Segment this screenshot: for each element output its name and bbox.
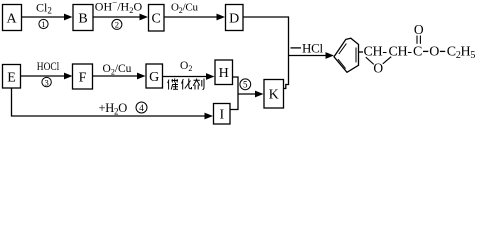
wire C to D <box>164 14 225 21</box>
epoxide bond right <box>383 57 391 64</box>
epoxide bond left <box>366 57 374 64</box>
svg-text:CH-: CH- <box>364 44 388 59</box>
box I <box>214 104 231 125</box>
box B <box>73 5 93 31</box>
formula dash3 <box>423 50 428 52</box>
svg-text:OH−/H2O: OH−/H2O <box>95 0 143 15</box>
svg-text:F: F <box>79 71 87 86</box>
wire H to merge <box>230 77 238 110</box>
label circled 1 <box>39 19 48 29</box>
wire E down to I <box>12 88 214 119</box>
wire D to junction <box>243 17 289 89</box>
box E <box>3 65 21 89</box>
wire E to F <box>21 73 73 80</box>
wire A to B <box>22 14 73 21</box>
svg-text:K: K <box>269 88 279 103</box>
svg-text:1: 1 <box>41 19 45 29</box>
svg-text:O2/Cu: O2/Cu <box>171 2 199 15</box>
wire B to C <box>93 14 148 21</box>
svg-text:O: O <box>414 22 424 37</box>
label circled 5 <box>240 79 251 90</box>
svg-text:I: I <box>219 108 224 123</box>
svg-text:H: H <box>219 66 229 81</box>
svg-text:+H2O: +H2O <box>99 101 128 117</box>
svg-text:4: 4 <box>139 104 144 114</box>
svg-text:A: A <box>6 12 17 27</box>
label cuihuaji (catalyst) <box>168 79 204 90</box>
svg-text:D: D <box>229 12 239 27</box>
svg-text:HOCl: HOCl <box>37 59 60 73</box>
label circled 3 <box>42 77 51 87</box>
svg-text:3: 3 <box>44 77 48 87</box>
carbonyl double bond <box>417 36 420 44</box>
benzene ring <box>334 38 359 72</box>
arrow to product <box>289 52 335 59</box>
box K <box>264 80 284 109</box>
svg-text:B: B <box>78 12 87 27</box>
svg-text:C: C <box>152 12 161 27</box>
svg-text:5: 5 <box>243 80 248 90</box>
box D <box>226 5 244 31</box>
box F <box>73 64 93 89</box>
wire G to H <box>163 73 215 80</box>
svg-text:O: O <box>373 61 383 76</box>
label circled 2 <box>112 19 122 29</box>
svg-text:C: C <box>413 44 422 59</box>
svg-text:G: G <box>149 70 159 85</box>
box C <box>149 5 165 32</box>
svg-text:O: O <box>429 44 439 59</box>
svg-text:2: 2 <box>115 20 119 30</box>
label -HCl <box>291 41 324 56</box>
svg-text:HCl: HCl <box>302 41 323 56</box>
box A <box>3 5 22 31</box>
arrow merge to K <box>238 91 264 98</box>
formula dash4 <box>440 50 445 52</box>
label circled 4 <box>136 102 147 114</box>
svg-text:E: E <box>7 71 16 86</box>
box H <box>215 60 233 85</box>
box G <box>146 64 163 88</box>
bond ring to CH <box>359 51 364 53</box>
wire F to G <box>93 73 146 80</box>
svg-text:O2/Cu: O2/Cu <box>103 63 132 76</box>
svg-text:CH-: CH- <box>389 44 413 59</box>
